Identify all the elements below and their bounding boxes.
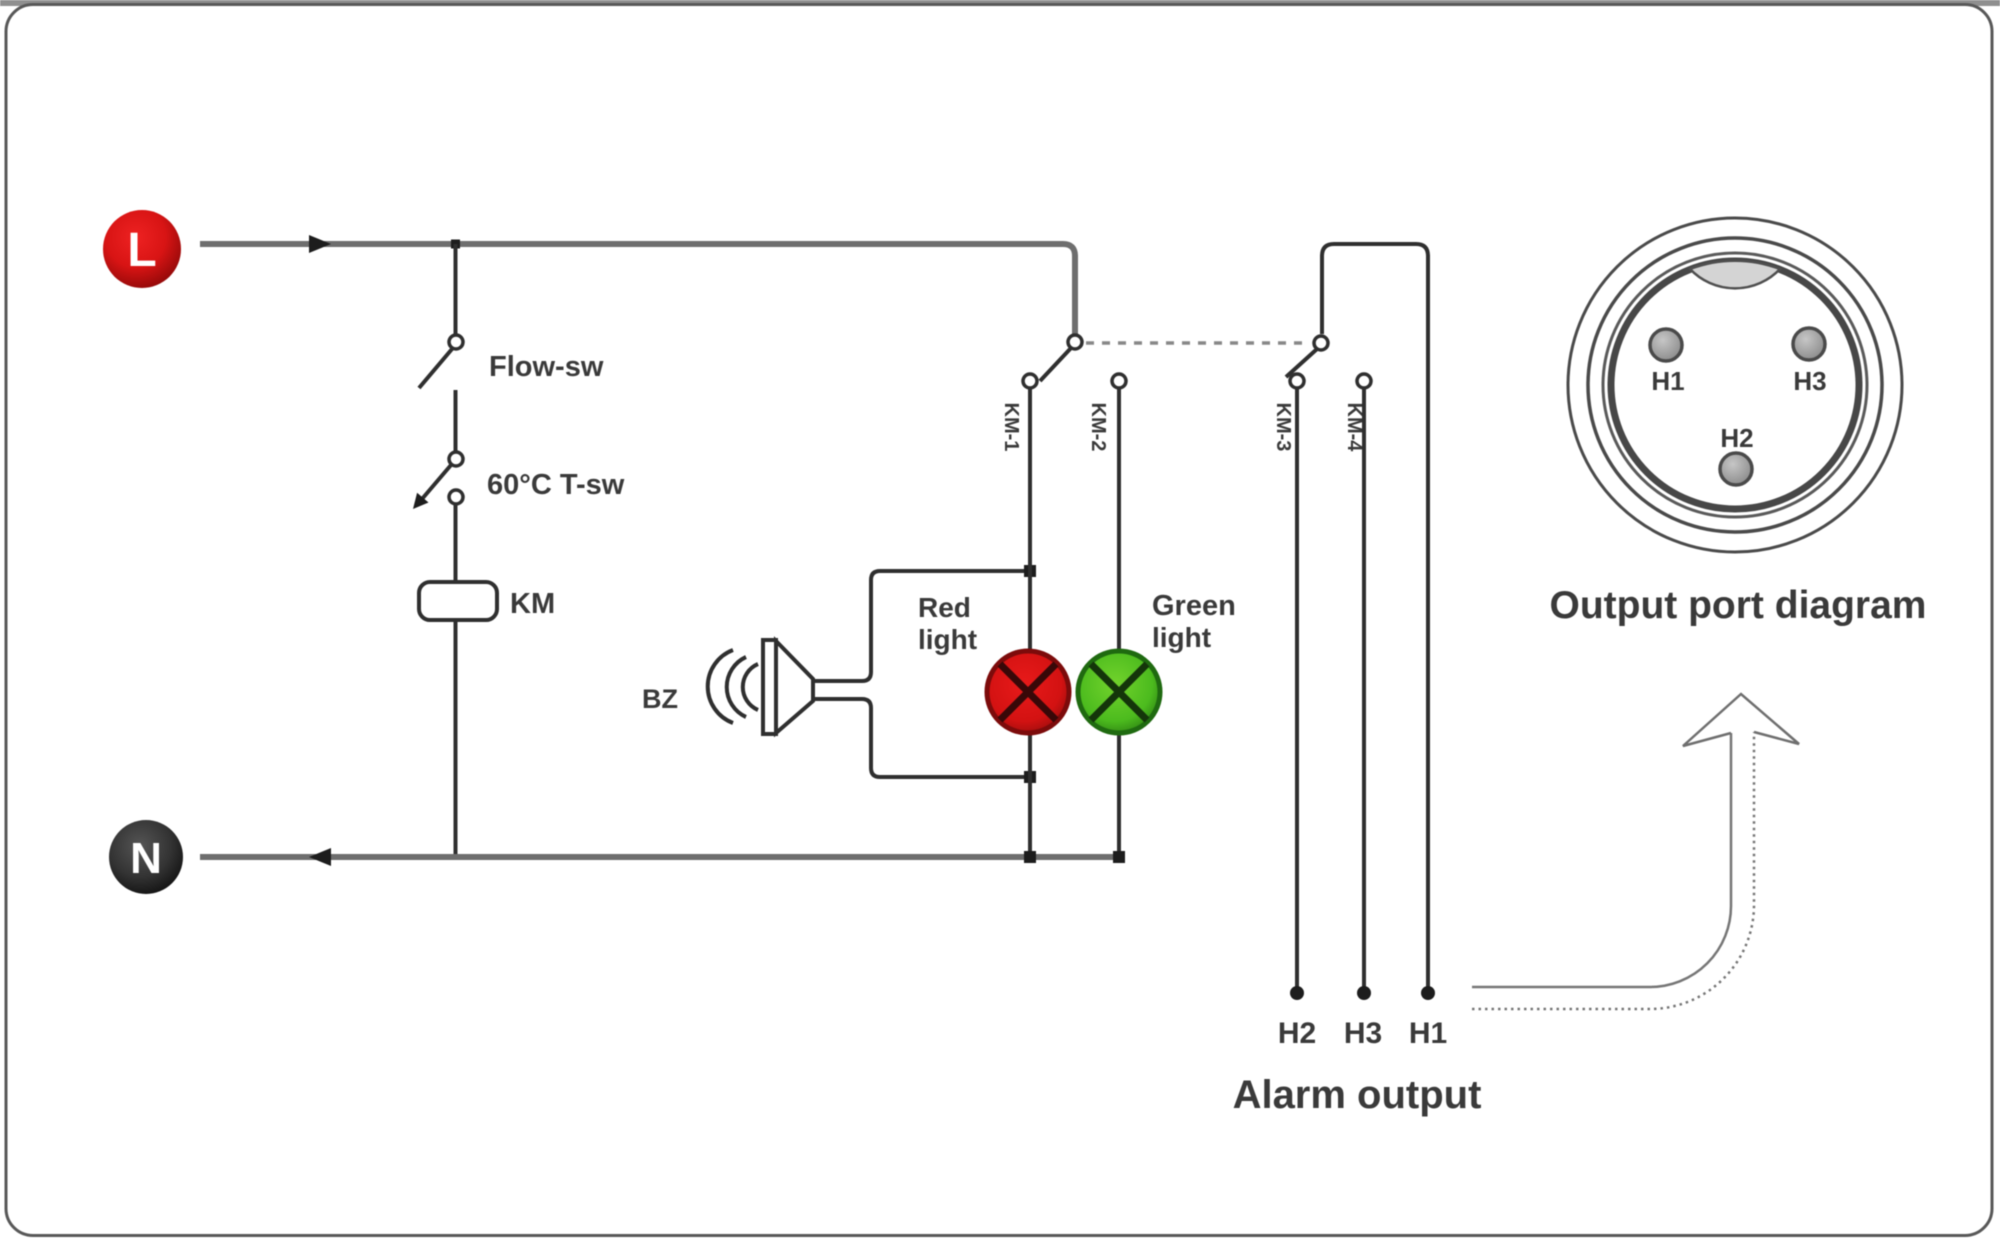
svg-text:Output port diagram: Output port diagram bbox=[1550, 584, 1927, 627]
svg-text:Red: Red bbox=[918, 592, 971, 623]
lamp red light bbox=[987, 651, 1069, 733]
wire KM-1 branch (red lamp) bbox=[1028, 388, 1032, 857]
switch KM-4 bbox=[1357, 374, 1371, 388]
node buzzer top junction bbox=[1024, 565, 1036, 577]
lamp green light bbox=[1078, 651, 1160, 733]
connector outer circle bbox=[1568, 218, 1902, 552]
arrow on N bus bbox=[309, 848, 331, 866]
switch 60C T-sw bbox=[413, 452, 463, 509]
connector inner ring bbox=[1611, 261, 1859, 509]
connector second circle bbox=[1588, 238, 1882, 532]
svg-text:KM-3: KM-3 bbox=[1272, 403, 1294, 452]
mechanical link dashed bbox=[1086, 341, 1310, 345]
node H2 end bbox=[1290, 986, 1304, 1000]
arrow on L bus bbox=[309, 235, 331, 253]
relay coil KM bbox=[419, 582, 497, 620]
switch KM-3 bbox=[1286, 336, 1328, 388]
wire Flow-sw to T-sw bbox=[454, 390, 458, 452]
wire KM-2 branch (green lamp) bbox=[1117, 388, 1121, 857]
svg-text:H3: H3 bbox=[1344, 1017, 1382, 1050]
svg-text:60°C T-sw: 60°C T-sw bbox=[487, 469, 625, 501]
svg-text:H3: H3 bbox=[1793, 366, 1826, 396]
node H3 end bbox=[1357, 986, 1371, 1000]
node green lamp N junction bbox=[1113, 851, 1125, 863]
svg-text:Alarm output: Alarm output bbox=[1233, 1073, 1482, 1117]
switch Flow-sw bbox=[419, 335, 463, 388]
buzzer BZ bbox=[708, 640, 813, 734]
svg-text:H1: H1 bbox=[1651, 366, 1684, 396]
arrow to connector (tail solid) bbox=[1472, 733, 1731, 987]
wire to Flow-sw bbox=[454, 244, 458, 336]
terminal L bbox=[103, 210, 181, 288]
connector pin H2 bbox=[1720, 453, 1752, 485]
connector pin H3 bbox=[1793, 328, 1825, 360]
terminal N bbox=[109, 820, 183, 894]
connector keyway bbox=[1690, 261, 1780, 289]
svg-text:KM: KM bbox=[510, 588, 555, 620]
svg-text:H2: H2 bbox=[1278, 1017, 1316, 1050]
node red lamp N junction bbox=[1024, 851, 1036, 863]
node L junction bbox=[451, 240, 460, 249]
wire H3 bbox=[1362, 388, 1366, 990]
svg-text:H1: H1 bbox=[1409, 1017, 1447, 1050]
arrow head bbox=[1683, 694, 1799, 746]
wire top loop to H1 bbox=[1322, 244, 1428, 990]
arrow to connector (tail dotted) bbox=[1472, 732, 1754, 1009]
svg-text:BZ: BZ bbox=[642, 684, 678, 714]
svg-text:L: L bbox=[127, 224, 156, 277]
wire buzzer top lead bbox=[813, 571, 1030, 681]
svg-text:Flow-sw: Flow-sw bbox=[489, 351, 604, 383]
svg-text:H2: H2 bbox=[1720, 423, 1753, 453]
svg-text:KM-4: KM-4 bbox=[1343, 403, 1365, 453]
svg-text:light: light bbox=[1152, 622, 1211, 653]
wire N bus bbox=[200, 854, 1119, 860]
svg-text:Green: Green bbox=[1152, 590, 1236, 622]
svg-text:KM-2: KM-2 bbox=[1087, 403, 1109, 452]
switch KM-2 bbox=[1112, 374, 1126, 388]
node H1 end bbox=[1421, 986, 1435, 1000]
svg-text:KM-1: KM-1 bbox=[1000, 403, 1022, 452]
svg-text:light: light bbox=[918, 624, 977, 655]
svg-text:N: N bbox=[130, 834, 162, 883]
wire H2 bbox=[1295, 388, 1299, 990]
connector groove ring bbox=[1603, 253, 1867, 517]
wire L bus bbox=[200, 244, 1075, 336]
wire KM coil to N bus bbox=[454, 620, 458, 857]
node buzzer bottom junction bbox=[1024, 771, 1036, 783]
switch KM-1 bbox=[1023, 335, 1082, 388]
wire T-sw to KM coil bbox=[454, 504, 458, 582]
connector pin H1 bbox=[1650, 329, 1682, 361]
wire buzzer bottom lead bbox=[813, 699, 1030, 777]
